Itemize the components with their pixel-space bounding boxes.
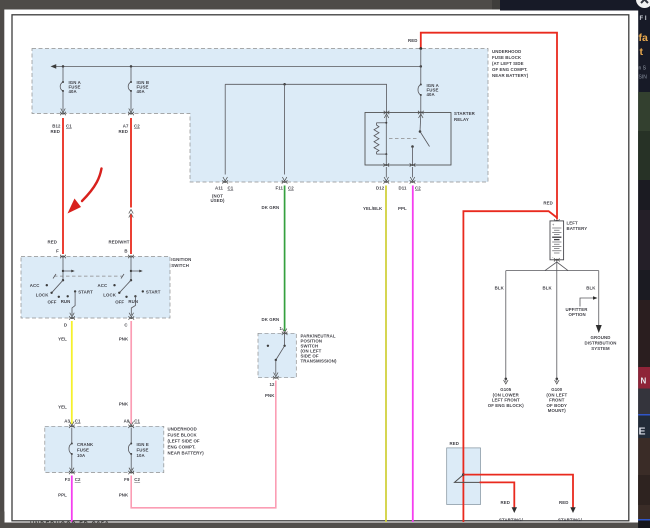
node bus-IGN A fuse [62, 65, 65, 68]
svg-text:RED: RED [408, 38, 417, 43]
svg-text:12: 12 [269, 382, 275, 387]
label park/neutral position switch [301, 334, 338, 364]
fuse IGN A 40A [60, 80, 81, 94]
underhood junction block box [447, 448, 481, 505]
svg-text:PNK: PNK [265, 393, 275, 398]
browser top bar gray [0, 0, 492, 10]
svg-text:D: D [64, 322, 67, 327]
svg-text:IGNITION: IGNITION [171, 257, 191, 262]
svg-text:A11: A11 [215, 185, 224, 190]
wire RED starting output 1 [480, 482, 524, 522]
svg-text:(NOT: (NOT [212, 193, 223, 198]
PNP switch internals [267, 333, 286, 379]
svg-text:FUSE BLOCK: FUSE BLOCK [168, 432, 198, 437]
bottom-left gray step [0, 512, 5, 528]
svg-text:10A: 10A [77, 453, 86, 458]
wire A11 stub [222, 84, 228, 183]
svg-text:BLK: BLK [495, 286, 505, 291]
annotation arrow (hand drawn) [68, 169, 102, 214]
wafer 1 LOCK contact [36, 292, 53, 298]
svg-text:NEAR BATTERY): NEAR BATTERY) [492, 73, 529, 78]
wire wafer1 START to pin D [69, 291, 75, 319]
pin label D11 C2 [399, 185, 422, 190]
svg-text:(ON LEFT: (ON LEFT [546, 392, 567, 397]
wire red feed top [408, 33, 557, 220]
svg-text:STARTING/: STARTING/ [499, 517, 524, 522]
svg-text:OPTION: OPTION [569, 312, 586, 317]
svg-text:YEL: YEL [58, 337, 67, 342]
wafer 2 ACC contact [97, 283, 115, 288]
wire PNK ign e output to PNP switch [119, 381, 276, 508]
wire RED starting output 2 [463, 475, 582, 523]
svg-text:(LEFT SIDE OF: (LEFT SIDE OF [168, 438, 200, 443]
svg-text:YEL/BLK: YEL/BLK [363, 206, 383, 211]
svg-text:A9: A9 [124, 419, 130, 424]
svg-text:A7: A7 [123, 124, 129, 129]
underhood fuse block (lower) box [45, 426, 164, 472]
svg-text:FRONT: FRONT [549, 398, 565, 403]
svg-text:SWITCH: SWITCH [171, 263, 189, 268]
battery top connector [554, 219, 560, 223]
wire YEL ignition to crank fuse [58, 321, 72, 424]
wafer 1 RUN contact [61, 295, 71, 304]
svg-text:10A: 10A [137, 453, 146, 458]
fuse IGN B 40A [128, 80, 149, 94]
pin label F11 C2 [275, 185, 294, 190]
sidebar blue divider 2 [638, 519, 650, 521]
wire DK GRN to PNP switch [262, 186, 285, 332]
svg-text:C2: C2 [134, 124, 140, 129]
wire BLK to G100 [543, 271, 557, 378]
sidebar photo interior [638, 438, 650, 519]
wire bus to fuse IGN B [130, 66, 132, 82]
wafer 1 OFF contact [48, 296, 61, 305]
label underhood fuse block (top) [492, 49, 529, 78]
wire splice chevrons [129, 210, 134, 218]
wire fuse IGN A to connector C1 [60, 91, 66, 115]
label ignition switch [171, 257, 191, 268]
pin label A7 C2 [123, 124, 141, 129]
starter relay label [454, 111, 476, 122]
fuse IGN E 10A [128, 428, 148, 458]
svg-text:BATTERY: BATTERY [567, 226, 588, 231]
svg-text:N: N [641, 377, 647, 386]
ground distribution system arrow [584, 325, 616, 351]
svg-text:RED: RED [119, 129, 128, 134]
svg-text:(ON LOWER: (ON LOWER [493, 392, 520, 397]
svg-text:BLK: BLK [543, 286, 553, 291]
close button [636, 0, 650, 8]
pin label A9 C1 [124, 419, 141, 429]
wire PPL starter solenoid [398, 186, 413, 523]
svg-text:OFF: OFF [48, 300, 57, 305]
park/neutral position switch box [258, 333, 296, 377]
svg-text:PNK: PNK [119, 337, 129, 342]
svg-text:SWITCH: SWITCH [301, 344, 319, 349]
sidebar blue divider [638, 414, 650, 416]
wafer 1 START contact [74, 290, 93, 295]
wire YEL/BLK crank signal [363, 186, 386, 523]
left gray edge [0, 0, 4, 528]
svg-text:BLK: BLK [586, 286, 596, 291]
svg-text:OF BODY: OF BODY [547, 403, 568, 408]
wire RED ignition feed 1 [51, 118, 63, 254]
svg-text:DK GRN: DK GRN [262, 205, 280, 210]
svg-text:C2: C2 [134, 477, 140, 482]
svg-text:FUSE BLOCK: FUSE BLOCK [492, 55, 522, 60]
upfitter option callout [566, 296, 598, 317]
svg-text:fa: fa [639, 32, 648, 44]
pin label A11 C1 (NOT USED) [211, 185, 234, 203]
sidebar gray block [638, 389, 650, 415]
svg-text:40A: 40A [137, 89, 146, 94]
pin label A3 C1 [64, 419, 81, 429]
wire coil pin to connector D12 [384, 167, 390, 184]
svg-text:PNK: PNK [119, 493, 129, 498]
svg-text:F9: F9 [124, 477, 130, 482]
main feed bus [51, 64, 421, 69]
wire fuse to relay switch pin [420, 95, 422, 113]
svg-text:RELAY: RELAY [454, 117, 469, 122]
svg-text:F: F [56, 249, 59, 254]
svg-text:40A: 40A [69, 89, 78, 94]
relay switch arm [411, 115, 429, 148]
pin label F9 C2 [124, 477, 140, 482]
link tick left [53, 274, 56, 279]
browser top bar navy [500, 0, 650, 11]
ignition wafer 2 arm to LOCK [119, 280, 131, 293]
svg-text:SYSTEM: SYSTEM [591, 346, 610, 351]
svg-text:CRANK: CRANK [77, 442, 94, 447]
sidebar brown section [638, 300, 650, 368]
svg-text:F11: F11 [275, 185, 283, 190]
svg-text:RED: RED [450, 441, 459, 446]
label underhood fuse block (lower) [168, 426, 205, 455]
ground G105 [488, 377, 525, 407]
wire feed down to relay fuse [420, 49, 422, 85]
wire RED battery to junction block [463, 201, 556, 523]
link tick right [121, 274, 124, 279]
svg-text:C2: C2 [75, 477, 81, 482]
sidebar photo trees [638, 92, 650, 180]
svg-text:UNDERHOOD: UNDERHOOD [492, 49, 521, 54]
svg-text:OF ENG COMPT.: OF ENG COMPT. [492, 67, 528, 72]
relay coil pin bottom [384, 163, 390, 167]
starter relay box U1 [365, 113, 451, 166]
wafer 2 OFF contact [115, 296, 128, 305]
wire relay output to bottom pin [412, 147, 414, 166]
svg-text:F I: F I [640, 16, 647, 22]
svg-text:SIN: SIN [639, 75, 648, 81]
svg-text:G100: G100 [551, 387, 563, 392]
svg-text:FUSE: FUSE [137, 448, 149, 453]
svg-text:t: t [640, 46, 644, 58]
svg-text:LEFT: LEFT [567, 221, 579, 226]
fuse CRANK 10A [69, 428, 94, 458]
right sidebar background [638, 0, 650, 528]
svg-text:B: B [124, 249, 127, 254]
junction block bus [455, 473, 481, 482]
svg-text:ENG COMPT.: ENG COMPT. [168, 444, 196, 449]
wire RED ignition feed 2 upper [119, 118, 131, 208]
wire PNK ignition to IGN E fuse [119, 321, 131, 424]
wire RED/WHT ignition feed 2 lower [109, 215, 131, 255]
svg-text:IGN E: IGN E [137, 442, 149, 447]
label left battery [567, 221, 588, 232]
svg-text:UPFITTER: UPFITTER [566, 307, 589, 312]
wire fuse IGN B to connector C2 [128, 91, 134, 115]
ignition wafer 1 arm to LOCK [52, 280, 63, 293]
svg-text:TRANSMISSION): TRANSMISSION) [301, 359, 338, 364]
wafer 2 START contact [142, 290, 161, 295]
svg-text:40A: 40A [427, 92, 436, 97]
svg-text:ACC: ACC [97, 283, 107, 288]
branch line inside fuse block [225, 84, 386, 112]
svg-text:PPL: PPL [398, 206, 407, 211]
svg-text:USED): USED) [211, 198, 225, 203]
svg-text:MOUNT): MOUNT) [548, 408, 566, 413]
svg-text:n S: n S [639, 66, 647, 72]
sidebar crimson block N [638, 367, 650, 389]
node red feed at fuse block [419, 47, 422, 50]
pin B [124, 249, 133, 259]
node bus-relay feed [420, 65, 423, 68]
svg-text:C2: C2 [288, 185, 294, 190]
svg-text:C1: C1 [134, 419, 140, 424]
svg-text:F3: F3 [65, 477, 71, 482]
pin label B12 C1 [52, 124, 72, 129]
svg-text:LOCK: LOCK [103, 292, 116, 297]
svg-text:STARTER: STARTER [454, 111, 476, 116]
ground G100 [546, 377, 567, 413]
svg-text:A3: A3 [64, 419, 70, 424]
svg-text:SIDE OF: SIDE OF [301, 354, 319, 359]
svg-text:NEAR BATTERY): NEAR BATTERY) [168, 450, 205, 455]
svg-text:FUSE: FUSE [77, 448, 89, 453]
pin 12 PNP switch [265, 382, 275, 398]
wire BLK to G105 [495, 271, 506, 378]
wire bus to fuse IGN A [62, 66, 64, 82]
svg-text:RED/WHT: RED/WHT [109, 240, 130, 245]
node branch-F11 [283, 83, 286, 86]
svg-text:START: START [146, 290, 161, 295]
wire ign e fuse to F9 [128, 454, 134, 474]
wafer 1 ACC contact [30, 283, 48, 288]
underhood fuse block (top) outline [32, 49, 488, 183]
svg-text:POSITION: POSITION [301, 339, 323, 344]
svg-text:RED: RED [51, 129, 60, 134]
sidebar bottom dark [638, 521, 650, 528]
svg-text:PNK: PNK [119, 402, 129, 407]
ignition switch link dashed [54, 275, 123, 277]
svg-text:C1: C1 [75, 419, 81, 424]
svg-text:STARTING/: STARTING/ [558, 517, 583, 522]
svg-text:YEL: YEL [58, 405, 67, 410]
svg-text:LEFT FRONT: LEFT FRONT [492, 398, 520, 403]
bottom gray bar [0, 523, 639, 528]
ignition switch box [21, 257, 170, 319]
svg-text:RUN: RUN [61, 299, 71, 304]
svg-text:D12: D12 [376, 185, 385, 190]
ignition wafer 1 input [62, 257, 75, 282]
relay switch pin bottom [410, 163, 416, 167]
svg-text:(ON LEFT: (ON LEFT [301, 349, 322, 354]
svg-text:C2: C2 [415, 185, 421, 190]
svg-text:C1: C1 [66, 124, 72, 129]
svg-text:E: E [639, 426, 646, 438]
svg-text:(AT LEFT SIDE: (AT LEFT SIDE [492, 61, 524, 66]
relay coil [374, 122, 387, 155]
wire crank fuse to F3 [69, 454, 75, 474]
svg-text:OFF: OFF [115, 300, 124, 305]
svg-text:PARK/NEUTRAL: PARK/NEUTRAL [301, 334, 336, 339]
fuse IGN A 40A (relay feed) [418, 83, 440, 97]
wire switch pin to connector D11 [410, 167, 416, 184]
relay switch pin top [418, 111, 424, 118]
svg-text:ACC: ACC [30, 283, 40, 288]
svg-text:RED: RED [501, 500, 510, 505]
wire BLK to ground distribution [586, 271, 598, 326]
svg-text:OF ENG BLOCK): OF ENG BLOCK) [488, 403, 525, 408]
wire wafer2 RUN to pin C [129, 296, 136, 319]
pin label F3 C2 [65, 477, 81, 482]
svg-text:B12: B12 [52, 124, 61, 129]
svg-text:DISTRIBUTION: DISTRIBUTION [584, 340, 616, 345]
node bus-IGN B fuse [130, 65, 133, 68]
svg-text:RUN: RUN [128, 299, 138, 304]
svg-text:RED: RED [48, 240, 57, 245]
wafer 2 LOCK contact [103, 292, 120, 298]
wire battery negative split [506, 260, 599, 271]
svg-text:UNDERHOOD: UNDERHOOD [168, 426, 197, 431]
wire F11 drop [282, 84, 288, 183]
relay mechanical link [389, 138, 417, 140]
svg-text:RED: RED [559, 500, 568, 505]
wafer 2 RUN contact [128, 295, 138, 304]
svg-text:GROUND: GROUND [591, 335, 611, 340]
svg-text:G105: G105 [500, 387, 512, 392]
svg-text:RED: RED [543, 201, 552, 206]
svg-text:PPL: PPL [58, 493, 67, 498]
svg-text:LOCK: LOCK [36, 292, 49, 297]
svg-text:C1: C1 [228, 185, 234, 190]
wire PPL crank output [58, 476, 72, 523]
svg-text:DK GRN: DK GRN [262, 317, 280, 322]
browser top bar seam [492, 0, 500, 10]
relay coil pin top [384, 111, 390, 118]
wire coil to bottom pin [385, 154, 387, 165]
pin 1 PNP switch [279, 326, 287, 335]
pin F [56, 249, 66, 259]
ignition wafer 2 input [130, 257, 143, 282]
svg-text:D11: D11 [399, 185, 408, 190]
sidebar dark section [638, 180, 650, 300]
wire relay coil feed [385, 116, 387, 123]
battery B1 left battery [550, 221, 564, 260]
sidebar E block [638, 416, 650, 439]
battery bottom connector [554, 258, 560, 262]
svg-text:START: START [78, 290, 93, 295]
